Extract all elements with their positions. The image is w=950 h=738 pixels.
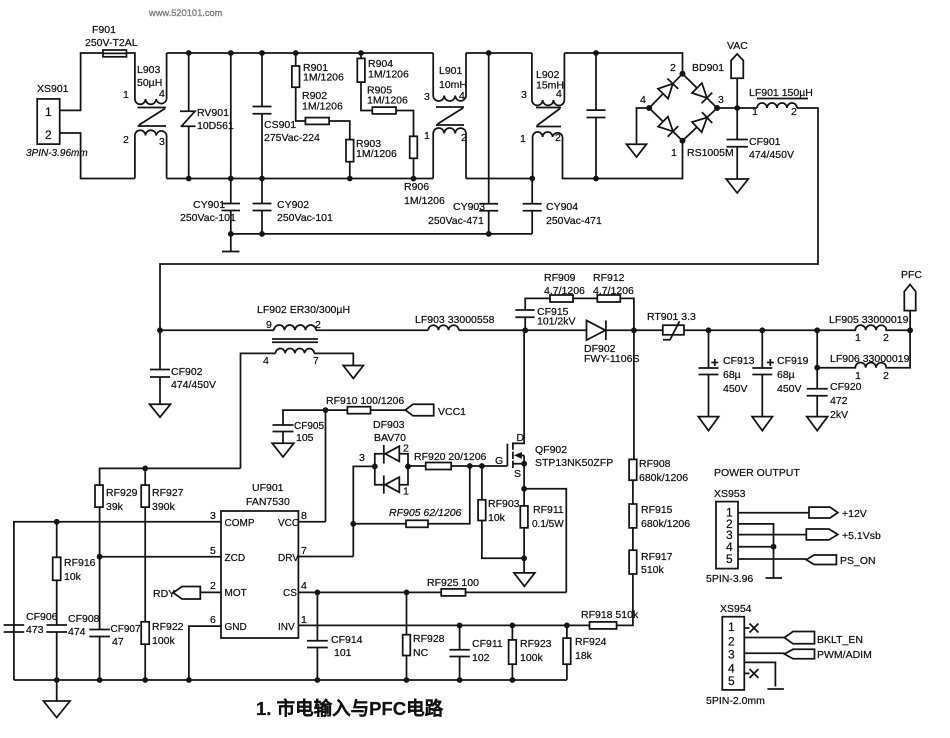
svg-text:COMP: COMP	[225, 518, 255, 529]
svg-text:1: 1	[45, 105, 52, 119]
node LF905 branch	[814, 327, 820, 367]
svg-text:2: 2	[123, 134, 129, 146]
node LF906 branch	[814, 365, 820, 371]
resistor RF918	[581, 574, 639, 629]
svg-text:PFC: PFC	[901, 269, 922, 281]
bridge rectifier BD901 RS1005M	[640, 62, 734, 159]
svg-text:RF910 100/1206: RF910 100/1206	[326, 395, 404, 407]
svg-text:MOT: MOT	[225, 588, 247, 599]
svg-text:VCC1: VCC1	[438, 406, 466, 418]
connector XS953	[706, 488, 753, 585]
node ZCD junction	[97, 554, 103, 560]
svg-text:450V: 450V	[777, 383, 802, 395]
node RF912/RF908 junction	[631, 327, 637, 333]
dual diode DF903 BAV70	[359, 419, 411, 498]
ground (CF902)	[150, 404, 171, 417]
capacitor CF901	[727, 108, 794, 179]
svg-text:RF927: RF927	[152, 487, 184, 499]
svg-text:105: 105	[296, 432, 314, 444]
svg-text:STP13NK50ZFP: STP13NK50ZFP	[535, 457, 613, 469]
wire top rail left segment	[167, 52, 434, 54]
node PFC junction	[907, 311, 913, 334]
wire XS901 pin1 to fuse	[60, 53, 103, 110]
svg-text:FWY-1106S: FWY-1106S	[584, 353, 639, 365]
connector flag +5.1Vsb	[806, 529, 881, 542]
resistor RF924	[563, 623, 607, 681]
svg-text:3: 3	[210, 510, 216, 522]
svg-text:RDY: RDY	[153, 588, 175, 600]
wire PFC rail to LF903	[316, 329, 428, 331]
svg-text:250V-T2AL: 250V-T2AL	[85, 37, 138, 49]
wire source to CS sense	[524, 489, 566, 593]
svg-text:ZCD: ZCD	[225, 553, 246, 564]
capacitor CF907	[89, 557, 141, 680]
svg-text:LF901 150µH: LF901 150µH	[749, 87, 813, 99]
svg-text:5: 5	[210, 545, 216, 557]
svg-text:68µ: 68µ	[723, 369, 741, 381]
svg-text:390k: 390k	[152, 501, 176, 513]
wire ZCD aux feed	[100, 468, 241, 485]
svg-text:VCC: VCC	[278, 518, 299, 529]
svg-text:47: 47	[112, 636, 124, 648]
svg-text:CF919: CF919	[777, 355, 809, 367]
capacitor CY901	[180, 50, 240, 234]
svg-text:3: 3	[359, 452, 365, 464]
svg-text:RF912: RF912	[593, 272, 625, 284]
svg-text:474/450V: 474/450V	[749, 149, 794, 161]
resistor RF923	[509, 623, 552, 683]
svg-text:4: 4	[159, 88, 165, 100]
wire R904 to R905	[361, 82, 372, 110]
resistor R905	[367, 85, 408, 114]
svg-text:474/450V: 474/450V	[171, 379, 216, 391]
svg-text:7: 7	[313, 355, 319, 367]
chassis ground (XS953)	[766, 577, 783, 579]
node COMP junction	[54, 519, 60, 525]
capacitor CF905	[273, 410, 326, 444]
svg-text:1M/1206: 1M/1206	[356, 148, 397, 160]
connector flag PS_ON	[806, 555, 875, 567]
svg-text:INV: INV	[278, 622, 295, 633]
svg-text:CF902: CF902	[171, 366, 203, 378]
connector PFC	[901, 269, 922, 311]
wire XS953 pin2 to gnd	[738, 524, 774, 578]
svg-text:3: 3	[521, 89, 527, 101]
svg-text:680k/1206: 680k/1206	[639, 472, 688, 484]
svg-text:2: 2	[728, 635, 735, 649]
svg-text:7: 7	[301, 545, 307, 557]
connector RDY flag	[153, 587, 221, 601]
svg-text:RF918 510k: RF918 510k	[581, 609, 639, 621]
svg-text:2: 2	[883, 332, 889, 344]
node LF902 input junction	[157, 327, 163, 333]
node ground rail junctions	[54, 677, 192, 683]
svg-text:QF902: QF902	[535, 444, 567, 456]
ground (CF913)	[698, 417, 718, 431]
svg-text:4.7/1206: 4.7/1206	[544, 285, 585, 297]
wire bottom rail to bridge	[596, 144, 683, 179]
wire LF901 pin2 down to return rail	[160, 108, 818, 330]
node QF902 source	[521, 486, 527, 492]
svg-text:2: 2	[210, 580, 216, 592]
capacitor CY904	[523, 176, 602, 234]
svg-text:1M/1206: 1M/1206	[368, 69, 409, 81]
inductor LF905	[817, 314, 910, 344]
wire LF903 to CF915 node	[459, 329, 525, 331]
svg-text:510k: 510k	[641, 564, 665, 576]
wire bottom ground rail	[14, 679, 567, 681]
resistor RF925	[427, 577, 479, 596]
svg-text:1: 1	[403, 486, 409, 498]
wire rail to RT901	[634, 329, 663, 331]
connector flag PWM/ADIM	[784, 649, 871, 661]
common-mode choke L902	[520, 53, 596, 179]
wire top rail mid segment	[466, 52, 532, 54]
svg-text:CF906: CF906	[26, 611, 58, 623]
title	[256, 698, 444, 719]
wire RT901 to output node	[684, 329, 817, 331]
inductor LF903	[415, 314, 495, 330]
resistor R901	[292, 50, 344, 87]
svg-text:BAV70: BAV70	[374, 432, 406, 444]
wire INV pin1	[298, 624, 589, 626]
svg-text:2: 2	[791, 106, 797, 118]
svg-text:450V: 450V	[723, 383, 748, 395]
svg-text:RF905 62/1206: RF905 62/1206	[389, 507, 462, 519]
svg-text:LF902 ER30/300µH: LF902 ER30/300µH	[257, 304, 350, 316]
svg-text:RF909: RF909	[544, 272, 576, 284]
svg-text:101: 101	[334, 647, 352, 659]
ground (RF911)	[514, 573, 535, 586]
svg-text:LF905 33000019: LF905 33000019	[829, 314, 909, 326]
svg-text:10D561: 10D561	[197, 120, 234, 132]
svg-text:68µ: 68µ	[777, 369, 795, 381]
connector XS901	[26, 83, 88, 159]
wire DRV pin7	[298, 556, 353, 558]
svg-text:18k: 18k	[575, 650, 593, 662]
svg-text:CF905: CF905	[294, 421, 324, 432]
node CS junction RF928	[404, 590, 410, 596]
svg-text:VAC: VAC	[727, 40, 748, 52]
wire CS pin4	[298, 591, 566, 593]
wire bottom rail mid segment	[466, 178, 532, 180]
svg-text:250Vac-471: 250Vac-471	[546, 215, 602, 227]
wire R905 to R906	[396, 111, 414, 137]
diode DF902	[525, 321, 639, 366]
common-mode choke L903	[123, 53, 167, 179]
svg-text:CS: CS	[283, 588, 297, 599]
svg-text:FAN7530: FAN7530	[246, 496, 290, 508]
label POWER OUTPUT	[714, 467, 800, 479]
svg-text:101/2kV: 101/2kV	[537, 316, 576, 328]
svg-text:DRV: DRV	[278, 553, 299, 564]
wire XS953 pin3	[738, 534, 806, 536]
svg-text:1: 1	[520, 133, 526, 145]
connector flag +12V	[809, 507, 867, 520]
svg-text:100k: 100k	[152, 635, 176, 647]
svg-text:RF908: RF908	[639, 458, 671, 470]
svg-text:4: 4	[640, 94, 646, 106]
svg-text:1. 市电输入与PFC电路: 1. 市电输入与PFC电路	[256, 698, 444, 719]
svg-text:102: 102	[472, 652, 490, 664]
resistor RF920	[408, 451, 507, 470]
ground (bridge)	[627, 144, 647, 157]
svg-text:3: 3	[728, 648, 735, 662]
wire XS954 pin4 to gnd	[744, 662, 775, 686]
svg-text:L903: L903	[137, 64, 161, 76]
svg-text:3PIN-3.96mm: 3PIN-3.96mm	[26, 148, 88, 159]
ground (CF919)	[752, 417, 772, 431]
wire bridge node4 to ground	[637, 108, 650, 144]
inductor LF901	[749, 87, 813, 118]
svg-text:5PIN-2.0mm: 5PIN-2.0mm	[706, 695, 765, 707]
svg-text:2: 2	[670, 62, 676, 74]
wire PFC rail	[160, 329, 274, 331]
connector VCC1	[405, 404, 466, 418]
svg-text:5: 5	[726, 552, 733, 566]
svg-text:2: 2	[555, 132, 561, 144]
svg-text:CF914: CF914	[331, 634, 363, 646]
capacitor CF902	[150, 330, 216, 404]
svg-text:5: 5	[728, 674, 735, 688]
svg-text:2: 2	[45, 128, 52, 142]
svg-text:1M/1206: 1M/1206	[367, 95, 408, 107]
svg-text:RF917: RF917	[641, 551, 673, 563]
svg-text:2: 2	[883, 370, 889, 382]
capacitor CF919	[752, 327, 808, 416]
capacitor CX (unlabeled)	[587, 50, 606, 181]
capacitor CF915	[515, 298, 575, 330]
connector flag BKLT_EN	[784, 632, 863, 647]
svg-text:XS953: XS953	[714, 488, 746, 500]
svg-text:UF901: UF901	[252, 482, 284, 494]
wire R901 to R902	[296, 87, 306, 121]
svg-text:R906: R906	[404, 181, 429, 193]
svg-text:www.520101.com: www.520101.com	[148, 8, 223, 18]
ground (CF920)	[807, 417, 828, 431]
node VCC1 junction	[323, 407, 329, 522]
node VAC junction	[734, 78, 740, 111]
resistor RF915	[629, 480, 690, 530]
wire XS953 pin1	[738, 512, 809, 514]
thermistor RT901	[647, 311, 696, 340]
fuse F901	[85, 24, 138, 57]
wire XS954 pin1 nc	[744, 624, 758, 633]
watermark	[148, 8, 223, 18]
svg-text:G: G	[495, 455, 503, 467]
connector VAC	[727, 40, 748, 78]
wire XS901 pin2 down to bottom rail	[60, 133, 135, 179]
svg-text:CF908: CF908	[68, 613, 100, 625]
svg-text:9: 9	[266, 319, 272, 331]
svg-text:RF928: RF928	[413, 633, 445, 645]
wire bottom rail left segment	[167, 178, 434, 180]
svg-text:1M/1206: 1M/1206	[404, 195, 445, 207]
svg-text:RF915: RF915	[641, 504, 673, 516]
IC UF901 FAN7530	[210, 482, 307, 638]
svg-text:RF920 20/1206: RF920 20/1206	[414, 451, 487, 463]
svg-text:CS901: CS901	[264, 119, 296, 131]
wire R902 to R903	[329, 121, 350, 140]
resistor R904	[357, 50, 409, 82]
resistor RF916	[53, 522, 96, 625]
svg-text:39k: 39k	[106, 501, 124, 513]
svg-text:2kV: 2kV	[830, 409, 848, 421]
resistor R902	[302, 90, 343, 124]
svg-text:4: 4	[556, 88, 562, 100]
capacitor CS901	[253, 50, 321, 178]
svg-text:1M/1206: 1M/1206	[303, 72, 344, 84]
svg-text:+5.1Vsb: +5.1Vsb	[842, 530, 881, 542]
svg-text:CF901: CF901	[749, 136, 781, 148]
ground (LF902 pin7)	[343, 366, 363, 379]
wire XS953 pin5	[738, 558, 806, 560]
svg-text:1M/1206: 1M/1206	[302, 101, 343, 113]
svg-text:6: 6	[210, 614, 216, 626]
wire ZCD pin5	[100, 556, 221, 558]
svg-text:RS1005M: RS1005M	[687, 147, 734, 159]
PFC transformer LF902	[241, 304, 354, 468]
svg-text:3: 3	[159, 136, 165, 148]
svg-text:3: 3	[718, 94, 724, 106]
svg-text:472: 472	[830, 395, 848, 407]
svg-text:4.7/1206: 4.7/1206	[593, 285, 634, 297]
svg-text:0.1/5W: 0.1/5W	[532, 519, 564, 530]
svg-text:680k/1206: 680k/1206	[641, 518, 690, 530]
svg-text:RF903: RF903	[488, 498, 520, 510]
chassis ground (XS954)	[767, 688, 784, 690]
svg-text:F901: F901	[92, 24, 116, 36]
resistor RF903	[478, 466, 524, 558]
connector XS954	[706, 603, 765, 707]
svg-text:RF924: RF924	[575, 636, 607, 648]
wire lower ground rail	[231, 233, 532, 235]
svg-text:2: 2	[403, 443, 409, 455]
svg-text:CF911: CF911	[472, 638, 503, 650]
resistor RF911	[520, 489, 564, 573]
wire GND pin6	[189, 626, 221, 680]
svg-text:S: S	[514, 468, 521, 480]
svg-text:PS_ON: PS_ON	[840, 555, 876, 567]
wire bridge node3 to LF901	[717, 107, 757, 109]
svg-text:10k: 10k	[64, 571, 82, 583]
ground (main)	[44, 680, 71, 718]
resistor RF909	[544, 272, 585, 302]
common-mode choke L901	[424, 53, 467, 179]
wire XS954 pin2	[744, 637, 784, 639]
node gate junctions	[467, 463, 485, 469]
svg-text:250Vac-101: 250Vac-101	[180, 212, 236, 224]
svg-text:BKLT_EN: BKLT_EN	[817, 634, 863, 646]
svg-text:L901: L901	[439, 65, 463, 77]
svg-text:1: 1	[424, 130, 430, 142]
capacitor CY903	[428, 50, 498, 237]
resistor R906	[404, 136, 445, 207]
capacitor CF914	[307, 592, 363, 682]
wire VCC pin8	[298, 521, 325, 523]
svg-text:474: 474	[68, 626, 86, 638]
svg-text:D: D	[517, 432, 525, 444]
svg-text:8: 8	[301, 510, 307, 522]
resistor RF922	[141, 621, 183, 680]
svg-text:CF907: CF907	[111, 624, 141, 635]
svg-text:3: 3	[424, 91, 430, 103]
svg-text:CY903: CY903	[453, 201, 485, 213]
svg-text:CY901: CY901	[193, 199, 225, 211]
svg-text:1: 1	[301, 614, 307, 626]
resistor RF928	[403, 592, 445, 682]
wire XS954 pin3	[744, 652, 784, 654]
wire BAV70 pin3 to RF905/DRV	[353, 466, 375, 556]
resistor RF917	[629, 528, 673, 576]
capacitor CF913	[699, 327, 755, 416]
svg-text:NC: NC	[413, 647, 429, 659]
svg-text:250Vac-101: 250Vac-101	[277, 212, 333, 224]
svg-text:GND: GND	[225, 622, 247, 633]
svg-text:CY902: CY902	[277, 199, 309, 211]
svg-text:RF925 100: RF925 100	[427, 577, 479, 589]
wire fuse to L903 pin1	[127, 53, 135, 99]
svg-text:CF913: CF913	[723, 355, 755, 367]
svg-text:+12V: +12V	[842, 508, 867, 520]
svg-text:LF903 33000558: LF903 33000558	[415, 314, 495, 326]
capacitor CY902	[253, 176, 334, 237]
svg-text:RF916: RF916	[64, 557, 96, 569]
svg-text:1: 1	[855, 332, 861, 344]
svg-text:5PIN-3.96: 5PIN-3.96	[706, 573, 753, 585]
svg-text:RF911: RF911	[533, 504, 564, 516]
resistor RF927	[141, 466, 183, 622]
svg-text:BD901: BD901	[692, 62, 724, 74]
wire XS953 pin4	[738, 544, 776, 550]
chassis ground stub below CY901	[222, 231, 240, 252]
varistor RV901	[180, 50, 234, 181]
svg-text:PWM/ADIM: PWM/ADIM	[817, 649, 872, 661]
svg-text:XS901: XS901	[37, 83, 69, 95]
node RF905 junction	[350, 521, 356, 527]
ground (CF905)	[272, 443, 294, 457]
capacitor CF920	[807, 368, 862, 421]
svg-text:RF922: RF922	[152, 621, 184, 633]
resistor RF912	[593, 272, 634, 302]
svg-text:1: 1	[671, 147, 677, 159]
svg-text:CF920: CF920	[830, 381, 862, 393]
svg-text:10k: 10k	[488, 512, 506, 524]
svg-text:100k: 100k	[520, 652, 544, 664]
capacitor CF906	[4, 611, 58, 636]
svg-text:1: 1	[752, 106, 758, 118]
svg-text:250Vac-471: 250Vac-471	[428, 215, 484, 227]
resistor RF905	[353, 466, 470, 527]
inductor LF906	[817, 330, 910, 382]
wire XS954 pin5 nc	[744, 669, 758, 678]
node CF915 junction	[522, 327, 528, 333]
svg-text:RT901 3.3: RT901 3.3	[647, 311, 696, 323]
resistor RF910	[326, 395, 406, 414]
svg-text:1: 1	[123, 89, 129, 101]
svg-text:CY904: CY904	[546, 201, 578, 213]
svg-text:473: 473	[26, 624, 44, 636]
node CS junction CF914	[315, 590, 321, 596]
resistor RF929	[95, 485, 138, 557]
svg-text:4: 4	[301, 580, 307, 592]
svg-text:4: 4	[263, 355, 269, 367]
capacitor CF911	[449, 623, 502, 683]
svg-text:RF929: RF929	[106, 487, 138, 499]
svg-text:275Vac-224: 275Vac-224	[264, 132, 320, 144]
transistor QF902 STP13NK50ZFP	[495, 330, 613, 489]
capacitor CF908	[46, 613, 99, 680]
